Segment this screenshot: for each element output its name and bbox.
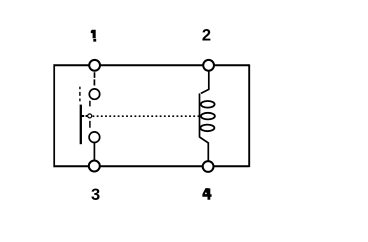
linkage crossing loop mark bbox=[88, 114, 92, 118]
svg-text:3: 3 bbox=[91, 186, 100, 204]
coil: loop 2 bbox=[201, 113, 215, 120]
terminal 2 bbox=[203, 60, 214, 71]
wire: case left edge bbox=[53, 64, 55, 167]
coil: left spine wire bbox=[199, 93, 201, 137]
terminal 1 bbox=[89, 60, 100, 71]
pin label 4 counter dot bbox=[205, 193, 207, 195]
upper fixed contact circle bbox=[89, 89, 99, 99]
svg-text:2: 2 bbox=[202, 27, 211, 45]
wire: terminal 1 down to upper fixed contact (broken scan dashes) bbox=[93, 72, 95, 85]
wire: case right edge bbox=[248, 64, 250, 167]
terminal 3 bbox=[89, 161, 100, 172]
terminal 4 bbox=[203, 161, 214, 172]
mechanical linkage tick from blade bbox=[82, 115, 88, 117]
wire: lower fixed contact to terminal 3 bbox=[93, 143, 95, 161]
mechanical linkage dotted line to coil bbox=[93, 115, 200, 117]
coil: loop 3 bbox=[200, 125, 214, 132]
coil: wire from terminal 2 down and jog left bbox=[201, 72, 209, 94]
contact: dashed gap line between fixed contacts bbox=[89, 101, 91, 128]
wire: case bottom edge bbox=[54, 165, 249, 167]
pin label 1 bbox=[91, 30, 96, 42]
coil: wire jog right down to terminal 4 bbox=[200, 137, 209, 161]
coil: loop 1 bbox=[201, 101, 215, 108]
movable contact blade (solid bar) bbox=[80, 105, 82, 145]
movable contact blade upper dashed part bbox=[79, 87, 81, 102]
lower fixed contact circle bbox=[89, 132, 100, 143]
pin label 4 bbox=[202, 188, 211, 200]
wire: case top edge bbox=[54, 64, 250, 66]
